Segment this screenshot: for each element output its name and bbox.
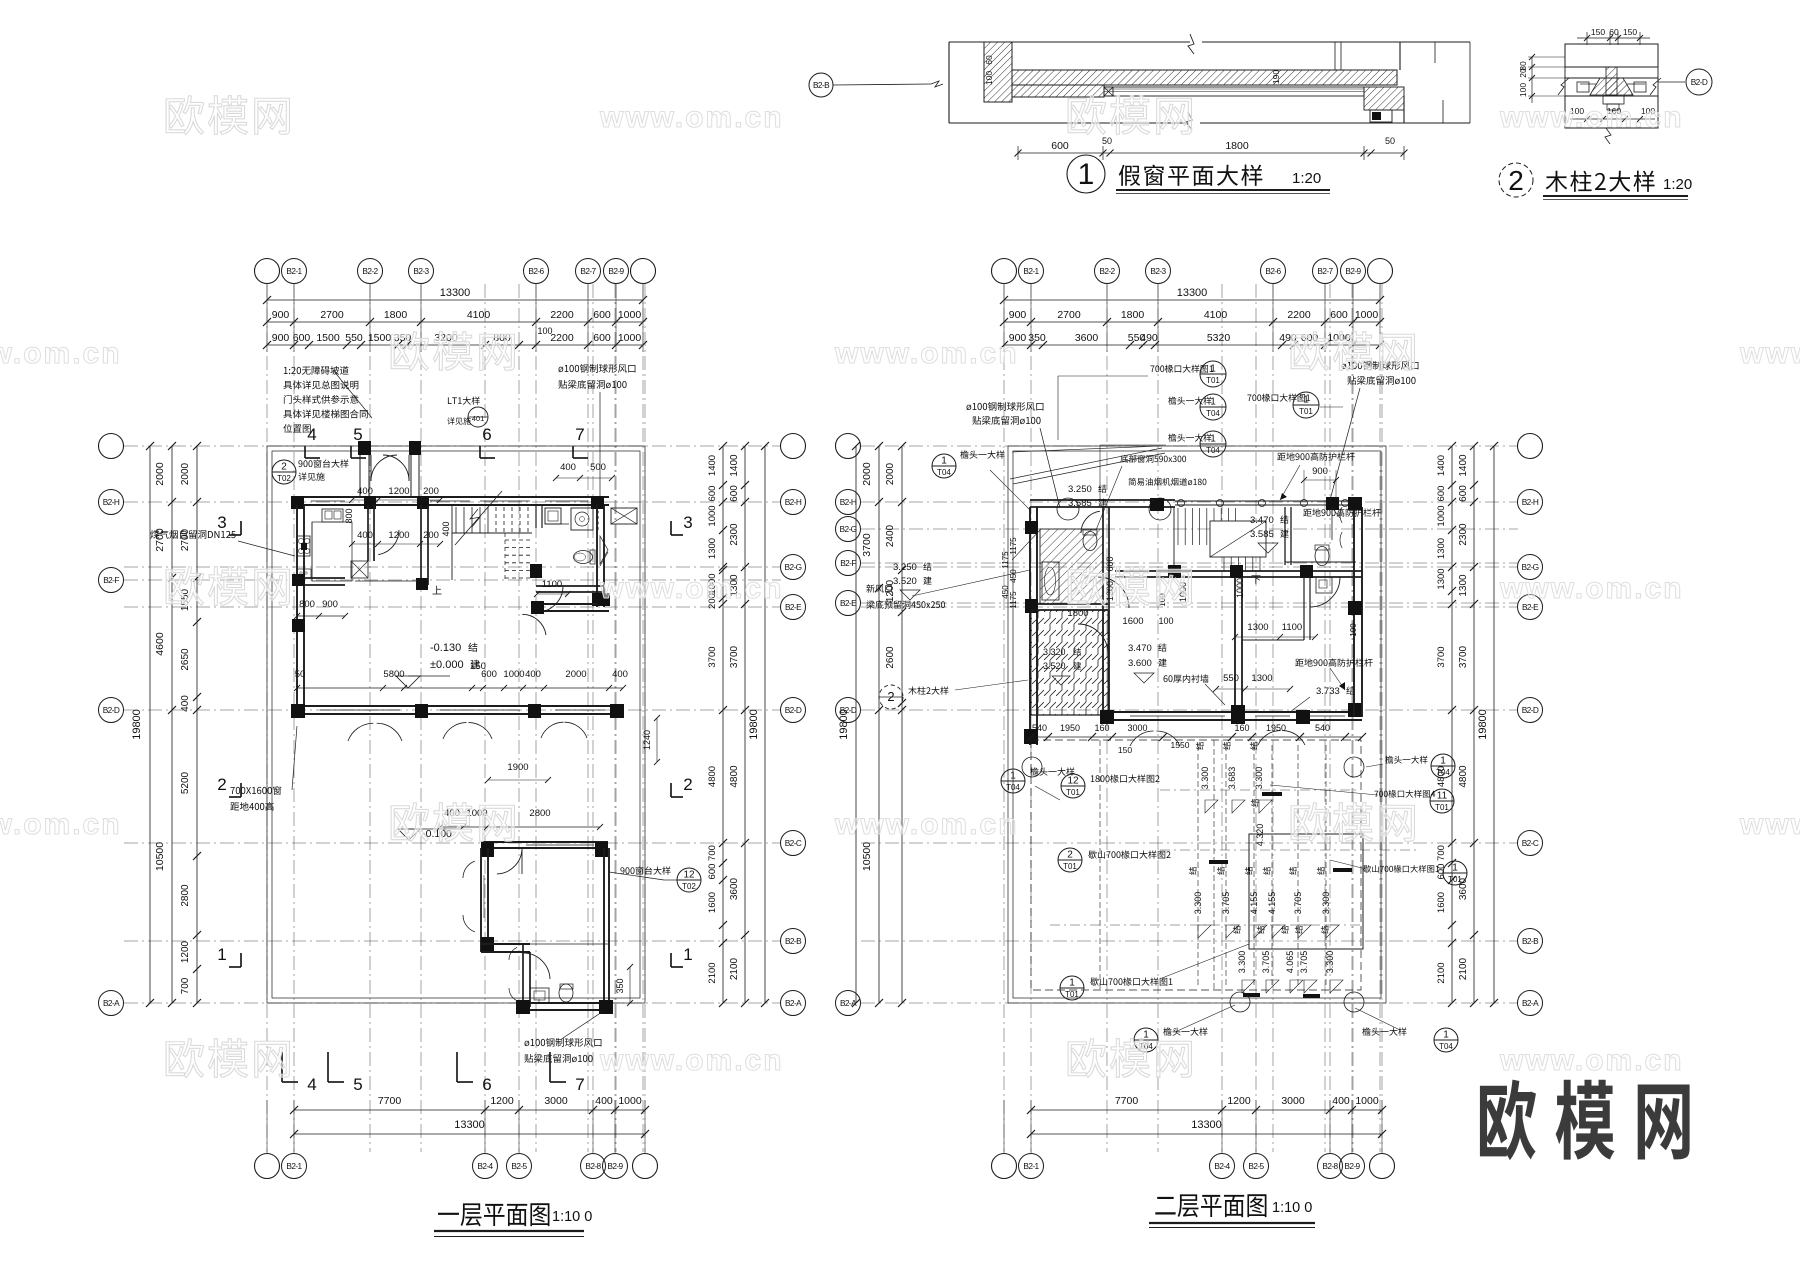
right plan: lower bath partition wall <box>1303 577 1305 640</box>
svg-text:1200: 1200 <box>388 486 409 497</box>
svg-text:4600: 4600 <box>154 632 166 656</box>
svg-text:1: 1 <box>941 456 947 467</box>
svg-text:1: 1 <box>217 945 226 964</box>
svg-text:4: 4 <box>307 1075 316 1094</box>
left plan: right axis bubbles <box>781 434 806 459</box>
right plan: 60 wall annotation <box>1164 675 1168 682</box>
svg-text:T02: T02 <box>277 474 291 483</box>
svg-text:100: 100 <box>1349 623 1358 637</box>
svg-text:400: 400 <box>357 486 373 497</box>
svg-text:350: 350 <box>615 978 625 993</box>
svg-text:4800: 4800 <box>1458 765 1469 788</box>
svg-text:600: 600 <box>707 864 718 880</box>
svg-text:3.470: 3.470 <box>1250 515 1274 526</box>
right plan: left wall <box>1029 507 1031 745</box>
detail 1: window frame <box>1104 87 1364 96</box>
svg-text:B2-E: B2-E <box>840 598 857 608</box>
svg-text:100: 100 <box>537 326 552 336</box>
right plan: vertical wall x1108 lower <box>1102 610 1104 724</box>
svg-text:12: 12 <box>683 870 695 881</box>
left plan: entry porch walls <box>358 441 371 455</box>
svg-text:2000: 2000 <box>154 462 166 486</box>
right plan: bottom dim rows <box>1031 1109 1382 1111</box>
svg-text:www.om.cn: www.om.cn <box>599 572 784 605</box>
svg-text:400: 400 <box>180 695 191 712</box>
svg-text:1:20: 1:20 <box>1292 170 1321 187</box>
svg-text:1300: 1300 <box>1458 574 1469 597</box>
svg-text:3.520: 3.520 <box>893 576 917 587</box>
svg-text:600: 600 <box>1458 485 1469 502</box>
svg-text:700: 700 <box>1436 845 1447 861</box>
svg-text:1200: 1200 <box>388 530 409 541</box>
svg-text:50: 50 <box>1385 136 1395 146</box>
detail 1: wall hatch beam <box>1012 70 1397 85</box>
left plan: mid wall y578 <box>304 577 345 579</box>
svg-text:10500: 10500 <box>154 842 166 871</box>
svg-text:401: 401 <box>472 414 485 423</box>
svg-text:B2-7: B2-7 <box>1317 266 1333 276</box>
svg-text:400: 400 <box>525 669 541 680</box>
svg-text:1200: 1200 <box>180 940 191 963</box>
detail 1: dimension line <box>1018 152 1404 154</box>
svg-text:10500: 10500 <box>861 842 873 871</box>
svg-text:1:20: 1:20 <box>1663 176 1692 193</box>
svg-text:1600: 1600 <box>1122 616 1143 627</box>
left plan: terrace boundary double line <box>267 446 645 1003</box>
svg-text:3.520: 3.520 <box>1043 661 1066 671</box>
svg-text:7700: 7700 <box>378 1095 402 1107</box>
svg-text:1: 1 <box>1440 756 1446 767</box>
svg-text:2100: 2100 <box>1458 957 1469 980</box>
svg-text:5320: 5320 <box>1207 332 1231 344</box>
right plan: roof terrace dashed outline <box>1031 740 1361 990</box>
svg-text:B2-6: B2-6 <box>528 266 544 276</box>
svg-text:900: 900 <box>272 309 290 321</box>
svg-text:1100: 1100 <box>1282 622 1302 633</box>
left plan: bathroom bottom wall <box>517 1002 612 1004</box>
svg-text:3.705: 3.705 <box>1221 892 1231 915</box>
svg-text:2100: 2100 <box>707 962 718 983</box>
svg-text:13300: 13300 <box>1191 1119 1222 1131</box>
svg-text:1175: 1175 <box>1001 551 1010 569</box>
svg-text:B2-D: B2-D <box>785 705 802 715</box>
left plan: terrace door arcs <box>348 723 373 741</box>
svg-text:3.250: 3.250 <box>893 562 917 573</box>
left plan: porch door arcs <box>371 455 397 481</box>
svg-text:2000: 2000 <box>885 462 896 485</box>
svg-text:1: 1 <box>1210 397 1216 408</box>
svg-text:7700: 7700 <box>1115 1095 1139 1107</box>
svg-text:100: 100 <box>1518 83 1528 97</box>
svg-text:400: 400 <box>612 669 628 680</box>
svg-text:1500: 1500 <box>316 332 340 344</box>
svg-text:B2-7: B2-7 <box>580 266 596 276</box>
svg-text:600: 600 <box>593 332 611 344</box>
svg-text:2: 2 <box>683 775 692 794</box>
right plan: terrace boundary <box>1008 446 1386 1003</box>
right plan: inside bottom dim row 540... <box>1031 736 1362 738</box>
svg-text:www.om.cn: www.om.cn <box>1499 572 1684 605</box>
svg-text:3.600: 3.600 <box>1128 658 1152 669</box>
right plan: left dim chains <box>855 446 857 1003</box>
svg-text:B2-A: B2-A <box>1522 998 1539 1008</box>
right plan: bottom wall right plan <box>1103 711 1362 713</box>
svg-text:±0.000: ±0.000 <box>430 659 464 671</box>
left plan: top dim row 13300 <box>267 299 643 301</box>
left plan: bath top right <box>535 505 537 528</box>
svg-text:B2-4: B2-4 <box>1214 1161 1230 1171</box>
svg-text:550: 550 <box>345 332 363 344</box>
right plan: small bath fixture below stairs <box>1316 577 1332 593</box>
right plan: horizontal dashed construction lines <box>1160 789 1360 791</box>
svg-text:4.065: 4.065 <box>1285 951 1295 974</box>
svg-text:1100: 1100 <box>542 579 562 590</box>
svg-text:1000: 1000 <box>1355 1095 1379 1107</box>
svg-text:1175: 1175 <box>1009 537 1018 555</box>
svg-text:540: 540 <box>1032 723 1047 733</box>
svg-text:1200: 1200 <box>490 1095 514 1107</box>
left plan: level -0.100 <box>398 829 420 840</box>
svg-text:700: 700 <box>180 977 191 994</box>
svg-text:3.585: 3.585 <box>1250 529 1274 540</box>
svg-text:400: 400 <box>441 521 451 536</box>
svg-text:490: 490 <box>1140 332 1158 344</box>
svg-text:B2-B: B2-B <box>1522 936 1539 946</box>
svg-text:3.300: 3.300 <box>1237 951 1247 974</box>
svg-text:B2-9: B2-9 <box>1344 1161 1360 1171</box>
svg-text:600: 600 <box>729 485 740 502</box>
svg-text:2200: 2200 <box>1287 309 1311 321</box>
left plan: window detail marker 12/T02 right <box>620 867 624 874</box>
svg-text:60: 60 <box>1609 27 1619 37</box>
svg-text:B2-9: B2-9 <box>608 266 624 276</box>
svg-text:B2-D: B2-D <box>103 705 120 715</box>
svg-text:50: 50 <box>1102 136 1112 146</box>
svg-text:1:10 0: 1:10 0 <box>1272 1200 1312 1216</box>
right plan: top-left bathroom hatched <box>1040 529 1103 604</box>
svg-text:B2-B: B2-B <box>785 936 802 946</box>
left plan: stair <box>451 505 453 533</box>
svg-text:3.300: 3.300 <box>1321 892 1331 915</box>
right plan: detail markers roof area <box>1061 774 1085 798</box>
svg-text:3600: 3600 <box>1075 332 1099 344</box>
svg-text:1: 1 <box>1210 434 1216 445</box>
detail 2 title circle 2 <box>1499 163 1533 197</box>
svg-text:T04: T04 <box>1006 783 1020 792</box>
svg-text:1300: 1300 <box>1436 538 1447 559</box>
svg-text:1: 1 <box>1010 771 1016 782</box>
left plan: top wall B2-H <box>291 496 609 498</box>
right plan: roof ridge dashed lines with level labels <box>1197 745 1199 985</box>
svg-text:B2-9: B2-9 <box>1345 266 1361 276</box>
svg-text:60: 60 <box>984 55 994 65</box>
svg-text:B2-2: B2-2 <box>1099 266 1115 276</box>
right plan: top wall with railing <box>1030 499 1175 501</box>
svg-text:1000: 1000 <box>1436 505 1447 526</box>
svg-text:5800: 5800 <box>383 669 404 680</box>
svg-text:B2-4: B2-4 <box>477 1161 493 1171</box>
svg-text:600: 600 <box>1105 556 1115 571</box>
svg-text:B2-G: B2-G <box>840 524 857 534</box>
svg-text:B2-A: B2-A <box>785 998 802 1008</box>
left plan: window annotation 700X1600 <box>230 787 234 794</box>
svg-text:900: 900 <box>322 599 338 610</box>
svg-text:4: 4 <box>307 425 316 444</box>
svg-text:900: 900 <box>272 332 290 344</box>
svg-text:900: 900 <box>1009 309 1027 321</box>
right plan: top right bathroom <box>1284 507 1286 565</box>
right plan: top-right bath bottom wall <box>1285 561 1356 563</box>
svg-text:-0.130: -0.130 <box>430 642 461 654</box>
svg-text:2700: 2700 <box>1057 309 1081 321</box>
detail 2: bottom dims 100 160 100 <box>1570 118 1655 120</box>
svg-text:1: 1 <box>1303 395 1309 406</box>
svg-text:3.733: 3.733 <box>1316 686 1340 697</box>
svg-text:www.om.cn: www.om.cn <box>599 101 784 134</box>
svg-text:1000: 1000 <box>503 669 524 680</box>
svg-text:B2-8: B2-8 <box>1322 1161 1338 1171</box>
svg-text:1800: 1800 <box>1067 608 1088 619</box>
right plan: roof slope door arc <box>1078 624 1108 654</box>
svg-text:100: 100 <box>984 71 994 85</box>
right plan: detail markers top <box>1150 366 1154 372</box>
svg-text:800: 800 <box>344 508 354 523</box>
svg-text:450: 450 <box>1009 569 1018 583</box>
svg-text:13300: 13300 <box>1177 287 1208 299</box>
svg-text:www.om.cn: www.om.cn <box>1499 1044 1684 1077</box>
right plan: horizontal axis lines <box>861 445 1518 447</box>
svg-text:19800: 19800 <box>1477 709 1489 740</box>
svg-text:2400: 2400 <box>885 524 896 547</box>
right plan: eave markers <box>932 454 956 478</box>
svg-text:B2-D: B2-D <box>1522 705 1539 715</box>
svg-text:19800: 19800 <box>131 709 143 740</box>
svg-text:2000: 2000 <box>861 462 873 486</box>
svg-text:3.683: 3.683 <box>1227 767 1237 790</box>
svg-text:T04: T04 <box>1439 1042 1453 1051</box>
svg-text:1000: 1000 <box>1235 578 1245 598</box>
svg-text:2600: 2600 <box>885 646 896 669</box>
svg-text:www.om.cn: www.om.cn <box>834 337 1019 370</box>
svg-text:B2-5: B2-5 <box>1248 1161 1264 1171</box>
title: second floor plan <box>1155 1197 1175 1215</box>
svg-text:1000: 1000 <box>707 505 718 526</box>
left plan: LT1 annotation <box>448 397 452 404</box>
svg-text:3700: 3700 <box>707 646 718 667</box>
svg-text:400: 400 <box>560 462 576 473</box>
svg-text:3.300: 3.300 <box>1193 892 1203 915</box>
svg-text:2800: 2800 <box>529 808 550 819</box>
svg-text:700: 700 <box>707 845 718 861</box>
svg-text:T01: T01 <box>1448 875 1462 884</box>
svg-text:B2-H: B2-H <box>103 497 120 507</box>
svg-text:900: 900 <box>1312 466 1328 477</box>
svg-text:3000: 3000 <box>1281 1095 1305 1107</box>
svg-text:7: 7 <box>575 425 584 444</box>
svg-text:3000: 3000 <box>1127 723 1147 733</box>
svg-text:500: 500 <box>590 462 606 473</box>
svg-text:B2-5: B2-5 <box>511 1161 527 1171</box>
left plan: vent annotation bottom <box>524 1041 529 1047</box>
axis bubble B2-B (detail 1 leader) <box>809 73 833 97</box>
svg-text:4100: 4100 <box>467 309 491 321</box>
svg-text:400: 400 <box>357 530 373 541</box>
svg-text:1900: 1900 <box>507 762 528 773</box>
svg-text:2800: 2800 <box>180 884 191 907</box>
svg-text:T01: T01 <box>1066 788 1080 797</box>
svg-text:4.320: 4.320 <box>1255 824 1265 847</box>
svg-text:3.705: 3.705 <box>1293 892 1303 915</box>
svg-text:190: 190 <box>1271 70 1281 84</box>
svg-text:4800: 4800 <box>707 766 718 787</box>
svg-text:5: 5 <box>353 1075 362 1094</box>
svg-text:540: 540 <box>1315 723 1330 733</box>
right plan: mid wall y571-577 <box>1115 570 1362 572</box>
detail 1: concrete column hatch <box>984 42 1012 102</box>
svg-text:3.320: 3.320 <box>1043 647 1066 657</box>
left plan: top dim row spans <box>267 321 643 323</box>
svg-text:1300: 1300 <box>707 538 718 559</box>
svg-text:1: 1 <box>683 945 692 964</box>
svg-text:2000: 2000 <box>180 462 191 485</box>
svg-text:B2-D: B2-D <box>1691 77 1708 87</box>
right plan: stair right plan <box>1173 507 1175 571</box>
left plan: kitchen interior <box>322 509 343 522</box>
svg-text:B2-1: B2-1 <box>1023 1161 1039 1171</box>
left plan: bath wall + door <box>536 585 604 587</box>
svg-text:T04: T04 <box>1436 768 1450 777</box>
svg-text:1: 1 <box>1210 364 1216 375</box>
svg-text:B2-E: B2-E <box>785 602 802 612</box>
svg-text:B2-C: B2-C <box>785 838 802 848</box>
svg-text:600: 600 <box>293 332 311 344</box>
svg-text:1: 1 <box>1443 1030 1449 1041</box>
right plan: annotation texts <box>966 405 971 411</box>
svg-text:3700: 3700 <box>1436 646 1447 667</box>
left plan: ramp annotation multiline <box>284 367 288 374</box>
svg-text:2: 2 <box>887 689 894 704</box>
right plan: railing annotations <box>1277 453 1285 461</box>
svg-text:2200: 2200 <box>550 332 574 344</box>
left plan: bottom wall B2-D <box>291 705 623 707</box>
svg-text:B2-F: B2-F <box>103 575 119 585</box>
svg-text:3.300: 3.300 <box>1200 767 1210 790</box>
left plan: left axis bubbles <box>99 434 124 459</box>
svg-text:1200: 1200 <box>1227 1095 1251 1107</box>
svg-text:1: 1 <box>1078 158 1095 191</box>
svg-text:1400: 1400 <box>729 454 740 477</box>
svg-text:1300: 1300 <box>1251 673 1272 684</box>
svg-text:600: 600 <box>707 486 718 502</box>
svg-text:2200: 2200 <box>550 309 574 321</box>
svg-text:B2-8: B2-8 <box>585 1161 601 1171</box>
svg-text:2100: 2100 <box>729 957 740 980</box>
right plan: window annotation <box>1120 455 1128 463</box>
svg-text:1000: 1000 <box>1355 309 1379 321</box>
svg-text:13300: 13300 <box>440 287 471 299</box>
svg-text:1175: 1175 <box>1009 591 1018 609</box>
right plan: top axis bubbles <box>992 259 1017 284</box>
svg-text:400: 400 <box>1332 1095 1350 1107</box>
svg-text:1240: 1240 <box>642 730 652 750</box>
svg-text:T02: T02 <box>682 882 696 891</box>
svg-text:3700: 3700 <box>861 533 873 557</box>
right plan: corner circles on terrace <box>1022 757 1042 777</box>
left plan: left wall <box>296 505 298 718</box>
svg-text:3: 3 <box>683 513 692 532</box>
right plan: wood column marker <box>879 685 903 709</box>
detail 2: wood column outline <box>1565 44 1658 67</box>
left plan: bathroom door arc <box>523 953 550 979</box>
detail 2: column cross hatch <box>1590 78 1633 95</box>
svg-text:2000: 2000 <box>565 669 586 680</box>
svg-text:4.155: 4.155 <box>1249 892 1259 915</box>
svg-text:B2-3: B2-3 <box>1150 266 1166 276</box>
svg-text:50: 50 <box>295 669 306 680</box>
svg-text:B2-3: B2-3 <box>413 266 429 276</box>
svg-text:11: 11 <box>1437 791 1448 802</box>
left plan: left dim chains <box>149 446 151 1003</box>
svg-text:B2-H: B2-H <box>785 497 802 507</box>
right plan: bathroom right wall <box>1102 507 1104 610</box>
svg-text:1600: 1600 <box>1436 892 1447 913</box>
svg-text:3.705: 3.705 <box>1299 951 1309 974</box>
detail 2 title 木柱2大样 1:20 <box>1546 171 1568 192</box>
svg-text:4800: 4800 <box>729 765 740 788</box>
svg-text:B2-H: B2-H <box>840 497 857 507</box>
svg-text:2: 2 <box>281 462 287 473</box>
svg-text:20: 20 <box>1518 68 1528 78</box>
svg-text:B2-A: B2-A <box>103 998 120 1008</box>
svg-text:150: 150 <box>1623 27 1637 37</box>
svg-text:3700: 3700 <box>729 645 740 668</box>
svg-text:13300: 13300 <box>454 1119 485 1131</box>
svg-text:B2-1: B2-1 <box>1023 266 1039 276</box>
svg-text:5: 5 <box>353 425 362 444</box>
svg-text:2: 2 <box>1067 850 1073 861</box>
svg-text:12: 12 <box>1067 776 1079 787</box>
svg-text:4.155: 4.155 <box>1267 892 1277 915</box>
svg-text:3: 3 <box>217 513 226 532</box>
left plan: bedroom door <box>497 848 522 874</box>
left plan: right dim chains <box>722 446 724 1003</box>
svg-text:T01: T01 <box>1063 862 1077 871</box>
svg-text:B2-G: B2-G <box>785 562 802 572</box>
left plan: bottom dim rows <box>294 1109 645 1111</box>
svg-text:3.470: 3.470 <box>1128 643 1152 654</box>
svg-text:www.om.cn: www.om.cn <box>1739 808 1800 841</box>
svg-text:19800: 19800 <box>838 709 850 740</box>
left plan: bedroom block bottom right <box>481 841 608 843</box>
right plan: fresh air <box>866 584 874 592</box>
svg-text:6: 6 <box>482 425 491 444</box>
right plan: door arcs mid <box>1098 577 1129 608</box>
svg-text:3000: 3000 <box>544 1095 568 1107</box>
svg-text:B2-6: B2-6 <box>1265 266 1281 276</box>
svg-text:800: 800 <box>299 599 315 610</box>
right plan: wall under bathroom <box>1037 603 1108 605</box>
svg-text:1400: 1400 <box>707 455 718 476</box>
svg-text:T01: T01 <box>1206 376 1220 385</box>
left plan: window marker circle 2/T02 left <box>272 460 296 484</box>
svg-text:1: 1 <box>1452 863 1458 874</box>
svg-text:3.705: 3.705 <box>1261 951 1271 974</box>
right plan: right axis bubbles <box>1518 434 1543 459</box>
svg-text:T04: T04 <box>937 468 951 477</box>
svg-text:4100: 4100 <box>1204 309 1228 321</box>
svg-text:1: 1 <box>1143 1030 1149 1041</box>
watermark tiles <box>166 96 204 135</box>
